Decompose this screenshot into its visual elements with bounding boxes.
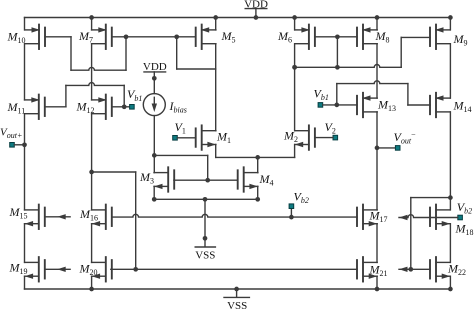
svg-text:M5: M5 [221, 29, 236, 45]
svg-text:M17: M17 [369, 208, 388, 224]
svg-text:M3: M3 [139, 170, 154, 186]
svg-text:M12: M12 [76, 100, 95, 116]
svg-text:M22: M22 [447, 262, 466, 278]
svg-text:M4: M4 [259, 172, 274, 188]
svg-text:M1: M1 [216, 130, 231, 146]
svg-text:Vb1: Vb1 [314, 87, 329, 103]
svg-text:M7: M7 [78, 29, 93, 45]
svg-text:M6: M6 [277, 29, 292, 45]
svg-text:Vb2: Vb2 [294, 189, 309, 205]
svg-text:V2: V2 [325, 120, 336, 136]
svg-text:M18: M18 [455, 222, 474, 238]
svg-text:M14: M14 [453, 99, 472, 115]
svg-text:M21: M21 [369, 263, 388, 279]
svg-text:M9: M9 [453, 32, 468, 48]
svg-text:M11: M11 [7, 100, 26, 116]
svg-text:Vb2: Vb2 [457, 200, 472, 216]
svg-text:VDD: VDD [244, 0, 268, 10]
svg-text:Vout−: Vout− [394, 130, 417, 146]
svg-text:V1: V1 [175, 120, 186, 136]
svg-text:M10: M10 [7, 30, 26, 46]
svg-text:M8: M8 [375, 29, 390, 45]
svg-text:Vb1: Vb1 [127, 87, 142, 103]
svg-text:Vout+: Vout+ [0, 126, 22, 140]
svg-text:Ibias: Ibias [169, 99, 187, 115]
svg-text:M20: M20 [79, 262, 98, 278]
svg-text:VSS: VSS [195, 249, 215, 261]
svg-text:VSS: VSS [227, 300, 247, 310]
svg-text:M13: M13 [377, 98, 396, 114]
